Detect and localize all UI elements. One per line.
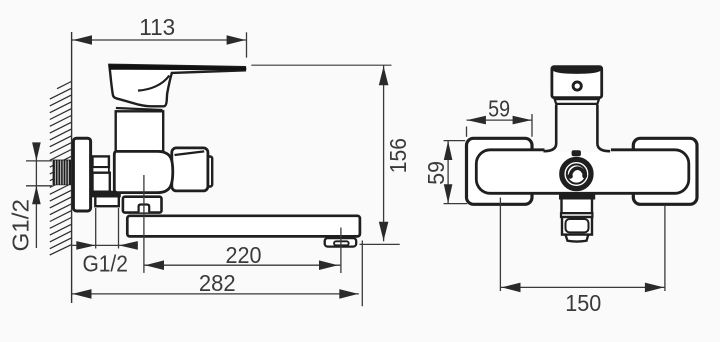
body column (side view) xyxy=(116,111,164,151)
handle reference line xyxy=(251,64,391,66)
dimension G1/2 vertical (thread) xyxy=(26,144,52,249)
dimension 59 horizontal xyxy=(467,114,533,137)
spout (side view) xyxy=(127,216,360,237)
shower icon xyxy=(570,168,584,176)
svg-text:156: 156 xyxy=(385,138,411,173)
cap screw circle xyxy=(573,82,581,90)
cartridge skirt line under handle xyxy=(116,108,163,110)
nut stack: flange xyxy=(93,192,120,197)
svg-text:59: 59 xyxy=(423,161,449,185)
spout connector under body xyxy=(123,197,162,213)
handle lever blade (black) xyxy=(109,65,246,71)
neck erase + sides xyxy=(545,147,611,153)
valve body (side view) xyxy=(114,151,173,192)
threaded pipe in wall G1/2 xyxy=(53,160,72,186)
nut stack: hex nut xyxy=(93,173,110,192)
body capsule (front view) xyxy=(476,150,689,194)
handle cap (front view) xyxy=(552,67,602,98)
dimension 282 xyxy=(72,241,362,307)
svg-text:282: 282 xyxy=(199,270,236,296)
svg-text:G1/2: G1/2 xyxy=(7,199,33,252)
dimension 156 xyxy=(383,65,385,241)
dimension 220 xyxy=(144,175,341,273)
aerator under spout tip xyxy=(325,238,357,247)
right mounting plate xyxy=(633,138,697,204)
handle crease curve xyxy=(138,76,169,91)
diverter knob (side view) xyxy=(207,157,213,187)
nut stack: upper ring xyxy=(93,156,109,167)
outlet below body xyxy=(560,194,594,198)
wall face line xyxy=(71,32,73,303)
handle grip (side view) xyxy=(109,65,245,107)
svg-text:220: 220 xyxy=(226,242,262,268)
wall hatching xyxy=(50,82,72,256)
svg-text:59: 59 xyxy=(488,96,510,122)
collar xyxy=(555,99,599,104)
top tab on body xyxy=(572,150,581,156)
svg-text:113: 113 xyxy=(139,14,175,40)
nut stack: lower ring xyxy=(95,196,119,206)
dimension 150 xyxy=(500,198,665,292)
svg-text:150: 150 xyxy=(565,290,601,316)
dimension 113 xyxy=(72,32,247,57)
svg-text:G1/2: G1/2 xyxy=(82,251,128,277)
dimension 59 vertical xyxy=(444,141,468,204)
diverter circle xyxy=(562,159,591,188)
nut stack: spacer ring xyxy=(93,167,109,173)
left mounting plate xyxy=(467,138,533,204)
faucet side view: escutcheon wall plate xyxy=(73,138,90,211)
dimension G1/2 horizontal (under nut) xyxy=(72,208,138,249)
